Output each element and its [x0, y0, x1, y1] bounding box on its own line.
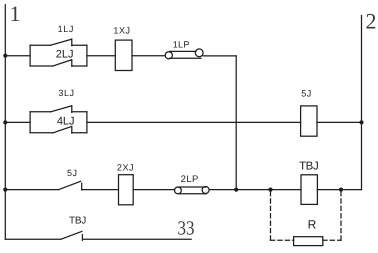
svg-text:2LJ: 2LJ — [56, 49, 74, 61]
svg-text:2LP: 2LP — [181, 174, 199, 185]
svg-text:1: 1 — [10, 1, 21, 26]
svg-text:2XJ: 2XJ — [117, 162, 134, 172]
svg-text:5J: 5J — [301, 88, 312, 98]
svg-text:33: 33 — [178, 218, 195, 240]
svg-text:1LJ: 1LJ — [58, 24, 74, 34]
svg-text:3LJ: 3LJ — [58, 88, 74, 98]
svg-text:4LJ: 4LJ — [57, 115, 75, 127]
svg-text:R: R — [308, 217, 317, 231]
svg-text:5J: 5J — [67, 168, 78, 178]
svg-text:1XJ: 1XJ — [113, 26, 130, 36]
svg-text:TBJ: TBJ — [299, 160, 318, 172]
svg-text:1LP: 1LP — [173, 39, 190, 49]
svg-text:TBJ: TBJ — [69, 216, 86, 227]
svg-text:2: 2 — [366, 9, 377, 34]
